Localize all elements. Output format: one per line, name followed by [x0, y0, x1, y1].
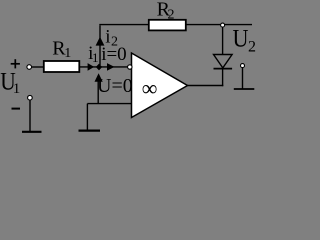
svg-text:U=0: U=0: [97, 75, 133, 97]
svg-text:∞: ∞: [142, 76, 158, 101]
svg-text:1: 1: [92, 50, 99, 65]
svg-text:i=0: i=0: [101, 44, 127, 65]
svg-text:2: 2: [168, 8, 175, 23]
svg-text:1: 1: [64, 46, 71, 61]
svg-text:1: 1: [13, 81, 21, 97]
svg-text:2: 2: [248, 39, 256, 56]
svg-text:U: U: [233, 25, 249, 52]
